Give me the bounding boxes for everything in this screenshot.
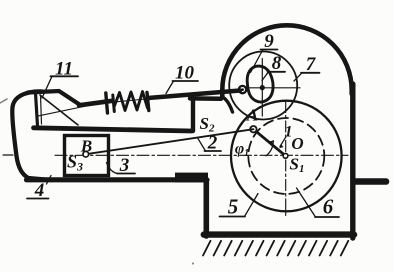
svg-text:6: 6 [323, 195, 334, 219]
svg-text:O: O [291, 134, 303, 153]
svg-text:2: 2 [207, 133, 218, 154]
svg-text:8: 8 [272, 53, 282, 74]
svg-text:B: B [80, 137, 92, 156]
svg-text:3: 3 [119, 155, 130, 176]
svg-text:5: 5 [228, 195, 239, 219]
svg-text:9: 9 [264, 31, 274, 52]
svg-text:11: 11 [55, 59, 73, 80]
svg-text:7: 7 [306, 54, 317, 75]
svg-text:4: 4 [34, 180, 45, 201]
svg-text:10: 10 [175, 63, 195, 84]
svg-text:A: A [246, 106, 258, 125]
